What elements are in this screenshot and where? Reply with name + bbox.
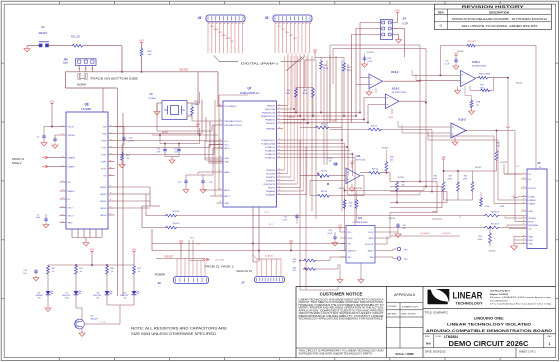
svg-text:SIZE 0603 UNLESS OTHERWISE SPE: SIZE 0603 UNLESS OTHERWISE SPECIFIED <box>131 332 217 336</box>
svg-text:C34: C34 <box>368 58 371 60</box>
U8 pin DTR# <box>108 154 115 156</box>
U7 pin PB2(SS/OC1B) <box>277 112 284 114</box>
svg-text:MUX: MUX <box>289 117 294 119</box>
svg-text:PD7: PD7 <box>277 26 281 28</box>
svg-text:R41: R41 <box>349 203 352 205</box>
wire PB rows to buffers <box>283 112 360 114</box>
wire sda scl runs <box>345 189 424 191</box>
svg-text:C13: C13 <box>23 270 26 272</box>
svg-text:L_TX: L_TX <box>101 322 106 324</box>
svg-text:PC4(ADC4): PC4(ADC4) <box>265 153 275 156</box>
svg-text:J4: J4 <box>403 17 407 21</box>
svg-text:CBUS3: CBUS3 <box>100 208 108 210</box>
U7 pin PB6(XTAL1/TOSC1) <box>217 120 224 122</box>
svg-text:+5V: +5V <box>132 247 137 251</box>
J1 pin MISO/SDA <box>521 224 527 226</box>
svg-text:PD1(TXD): PD1(TXD) <box>266 173 275 175</box>
U7 pin GND <box>217 202 224 204</box>
U8 pin TXD <box>108 126 115 128</box>
svg-text:CUSTOMER NOTICE: CUSTOMER NOTICE <box>320 291 363 296</box>
svg-text:R13: R13 <box>79 268 82 270</box>
svg-text:1630 McCarthy Blvd.: 1630 McCarthy Blvd. <box>490 290 510 293</box>
svg-text:R22: R22 <box>137 268 140 270</box>
svg-text:5k: 5k <box>127 158 129 160</box>
ground at U13-2 <box>452 142 458 145</box>
svg-text:Fax: (408)434-0507: Fax: (408)434-0507 <box>490 300 509 302</box>
U8 pin RXD <box>108 133 115 135</box>
U8 pin DCD# <box>108 168 115 170</box>
wire J3 bundle <box>176 259 178 277</box>
svg-text:VCCIO: VCCIO <box>501 162 508 164</box>
wire nested loops <box>390 182 437 213</box>
wire U4 to J1 <box>381 237 390 239</box>
svg-text:R38: R38 <box>477 102 480 104</box>
svg-text:GND: GND <box>529 243 534 245</box>
U7 pin PC2(ADC2) <box>277 146 284 148</box>
svg-text:PC3(ADC3): PC3(ADC3) <box>265 149 275 152</box>
U8 pin TEST <box>60 222 67 224</box>
J1 pin GND <box>521 239 527 241</box>
wire crystal <box>157 102 162 104</box>
svg-text:+5V: +5V <box>50 99 55 103</box>
svg-text:VCCIO: VCCIO <box>367 52 374 54</box>
svg-text:THIS CIRCUIT IS PROPRIETARY TO: THIS CIRCUIT IS PROPRIETARY TO LINEAR TE… <box>299 350 384 353</box>
wire led rail <box>48 264 134 266</box>
svg-text:LINDUINO ONE:: LINDUINO ONE: <box>474 316 504 321</box>
ground at S1 <box>24 49 30 52</box>
U4 pin ATO <box>340 256 346 258</box>
svg-text:LTC4360CMS8: LTC4360CMS8 <box>353 222 369 224</box>
J1 pin 5V <box>521 173 527 175</box>
svg-text:1 MEG: 1 MEG <box>193 104 200 106</box>
svg-text:CBUS0: CBUS0 <box>100 187 108 189</box>
wire bus verticals <box>341 60 343 212</box>
ground at R31 <box>119 165 125 168</box>
J5 pin wires <box>274 22 276 53</box>
svg-text:GND: GND <box>529 236 534 238</box>
U8 pin USBDP <box>60 166 67 168</box>
svg-text:C30: C30 <box>328 230 331 232</box>
svg-text:CBUS1: CBUS1 <box>100 194 108 196</box>
svg-text:C15: C15 <box>445 61 448 63</box>
svg-text:SCK/SCL: SCK/SCL <box>529 218 537 220</box>
ground at C26 <box>200 190 206 193</box>
ground at C22 <box>183 190 189 193</box>
svg-text:VERIFY PROPER AND RELIABLE OPE: VERIFY PROPER AND RELIABLE OPERATION IN … <box>299 307 385 310</box>
svg-text:3V3OUT: 3V3OUT <box>68 135 77 137</box>
long digital wires <box>177 215 484 217</box>
svg-text:R51 49.9: R51 49.9 <box>491 224 500 226</box>
ground at C19 <box>395 234 401 237</box>
svg-text:PD3(INT1): PD3(INT1) <box>266 180 275 182</box>
svg-text:APPROVALS: APPROVALS <box>394 293 416 297</box>
svg-text:VCCIO: VCCIO <box>382 148 389 150</box>
svg-text:R24 1k: R24 1k <box>173 223 181 225</box>
svg-text:CIRCUIT THAT MEETS CUSTOMER-SU: CIRCUIT THAT MEETS CUSTOMER-SUPPLIED SPE… <box>299 301 384 304</box>
U8 pin RI# <box>108 175 115 177</box>
U4 pin VOUT <box>375 231 381 233</box>
svg-text:NOTE: ALL RESISTORS AND CAPACI: NOTE: ALL RESISTORS AND CAPACITORS ARE <box>131 327 227 331</box>
svg-text:MUX: MUX <box>389 117 394 119</box>
U7 pin PB5(SCK) <box>277 122 284 124</box>
svg-text:DATE: 05/29/2015: DATE: 05/29/2015 <box>425 351 446 354</box>
svg-text:VCCIO: VCCIO <box>356 188 363 190</box>
U4 pin FAULT <box>375 250 381 252</box>
J1 pin USBDP <box>521 203 527 205</box>
U7 pin PB0(ICP) <box>277 105 284 107</box>
svg-text:MUX: MUX <box>332 121 337 123</box>
svg-text:PB7(XTAL2/TOSC2): PB7(XTAL2/TOSC2) <box>225 124 243 127</box>
svg-text:CTS#: CTS# <box>101 147 107 149</box>
svg-text:+5V: +5V <box>313 48 318 52</box>
svg-text:J1: J1 <box>537 161 541 165</box>
U7 pin PD6(AIN0) <box>277 190 284 192</box>
svg-text:C15: C15 <box>157 149 160 151</box>
svg-text:0.1uF: 0.1uF <box>328 233 334 235</box>
svg-text:GND: GND <box>225 161 230 163</box>
U8 pin VCCIO <box>60 126 67 128</box>
svg-text:GND: GND <box>225 203 230 205</box>
resistor R31 5k <box>121 152 124 161</box>
svg-text:PRODUCTION RELEASE DC2026B -: PRODUCTION RELEASE DC2026B - W.THOREN 4/… <box>452 18 548 21</box>
ground at J1 <box>514 236 521 238</box>
svg-text:PD7(AIN1): PD7(AIN1) <box>266 193 276 196</box>
svg-text:VCCIO: VCCIO <box>475 167 482 169</box>
svg-text:PB2(SS/OC1B): PB2(SS/OC1B) <box>262 112 275 114</box>
U8 pin CBUS1 <box>108 193 115 195</box>
svg-text:GATE: GATE <box>368 237 374 240</box>
svg-text:TITLE: SCHEMATIC: TITLE: SCHEMATIC <box>425 310 449 314</box>
U4 pin GATE <box>375 237 381 239</box>
svg-text:R37: R37 <box>481 85 484 87</box>
U4 pin TMR <box>375 256 381 258</box>
svg-text:4.99k: 4.99k <box>500 206 505 208</box>
U7 pin GND <box>217 161 224 163</box>
svg-text:Y1: Y1 <box>149 92 153 96</box>
svg-text:C17: C17 <box>174 149 177 151</box>
wire bus U8 to U7 <box>115 126 199 128</box>
svg-text:P4_5: P4_5 <box>265 212 269 214</box>
svg-text:RESET#: RESET# <box>68 191 77 193</box>
wire cbus leds <box>115 186 151 188</box>
U7 pin VCC <box>217 144 224 146</box>
U7 pin PD1(TXD) <box>277 173 284 175</box>
svg-text:VCCIO: VCCIO <box>516 82 523 84</box>
ground at U4 bottom <box>337 280 343 283</box>
svg-text:VOUT: VOUT <box>368 232 374 234</box>
svg-text:A0 A2 A4: A0 A2 A4 <box>265 255 272 258</box>
wire norm route <box>65 72 67 88</box>
U7 pin PC5(ADC5) <box>277 157 284 159</box>
svg-text:R47: R47 <box>449 176 452 178</box>
svg-text:R10: R10 <box>287 90 290 92</box>
U7 pin GND <box>217 157 224 159</box>
svg-text:0.1uF: 0.1uF <box>328 158 334 160</box>
U7 pin PD3(INT1) <box>277 180 284 182</box>
svg-text:R50 49.9: R50 49.9 <box>491 212 500 214</box>
svg-text:APP ENG.: APP ENG. <box>388 312 398 315</box>
svg-text:VCCIO: VCCIO <box>339 188 346 190</box>
J1 pin CS <box>521 228 527 230</box>
svg-text:PD5(T1): PD5(T1) <box>268 187 276 189</box>
svg-text:RTS#: RTS# <box>101 140 107 142</box>
svg-text:49.9k: 49.9k <box>303 93 307 95</box>
svg-text:0.1uF: 0.1uF <box>368 61 374 63</box>
svg-text:PB3(MOSI/OC2): PB3(MOSI/OC2) <box>261 116 275 118</box>
svg-text:R39 OPT: R39 OPT <box>468 41 477 43</box>
svg-text:DESCRIPTION: DESCRIPTION <box>489 11 509 15</box>
svg-text:+5V: +5V <box>350 159 355 163</box>
ground at C15 <box>453 66 459 69</box>
U7 pin AREF <box>217 171 224 173</box>
svg-text:PC6 (RESET): PC6 (RESET) <box>225 106 237 108</box>
svg-text:PB0(ICP): PB0(ICP) <box>267 105 275 107</box>
svg-text:HOWEVER, IT REMAINS THE CUSTOM: HOWEVER, IT REMAINS THE CUSTOMER'S RESPO… <box>299 304 384 307</box>
capacitor C6 at U8 VCC <box>43 134 45 136</box>
U7 pin PB6/XTAL <box>277 128 284 130</box>
svg-text:EXTVCC: EXTVCC <box>529 188 537 190</box>
svg-text:SCL/OUT: SCL/OUT <box>365 244 374 246</box>
svg-text:J3: J3 <box>157 281 161 285</box>
svg-text:SHEET 1 OF 2: SHEET 1 OF 2 <box>519 351 536 354</box>
svg-text:U7: U7 <box>247 87 251 91</box>
svg-text:ANALOG IN: ANALOG IN <box>236 269 251 273</box>
jumper trace NORM link <box>79 74 86 79</box>
svg-text:USBDM: USBDM <box>529 200 536 202</box>
wire verticals left of U12 <box>329 55 331 123</box>
svg-text:PB5(SCK): PB5(SCK) <box>266 123 275 125</box>
wire U12 outputs down <box>419 81 421 182</box>
svg-text:PB6/XTAL: PB6/XTAL <box>266 127 275 130</box>
U7 pin ADC6 <box>217 189 224 191</box>
svg-text:10k: 10k <box>349 205 352 207</box>
svg-text:DCD#: DCD# <box>101 168 107 170</box>
svg-text:ADC7: ADC7 <box>225 195 230 198</box>
svg-text:VCCIO: VCCIO <box>68 126 75 128</box>
svg-text:U8: U8 <box>84 103 88 107</box>
svg-text:R20: R20 <box>110 268 113 270</box>
svg-text:SCLK: SCLK <box>348 238 354 240</box>
wire verticals left of U7 <box>214 100 216 196</box>
svg-text:APPLICATION. COMPONENT SUBSTI: APPLICATION. COMPONENT SUBSTITUTION AND … <box>299 309 384 312</box>
svg-text:R44 1k: R44 1k <box>321 171 327 173</box>
svg-text:ATMEGA328P-AU: ATMEGA328P-AU <box>240 92 260 95</box>
svg-text:+5V: +5V <box>395 8 400 12</box>
test point TP4 <box>397 257 400 260</box>
svg-text:1k: 1k <box>111 271 113 273</box>
svg-text:CBUS4: CBUS4 <box>100 215 108 217</box>
svg-text:AREF: AREF <box>225 171 231 174</box>
svg-text:PERFORMANCE OR RELIABILITY. C: PERFORMANCE OR RELIABILITY. CONTACT LINE… <box>299 315 384 318</box>
U8 pin RTS# <box>108 140 115 142</box>
svg-text:CIRCUIT BOARD LAYOUT MAY SIGNI: CIRCUIT BOARD LAYOUT MAY SIGNIFICANTLY A… <box>299 312 385 315</box>
svg-text:ATO: ATO <box>348 256 352 259</box>
U8 pin USBDM <box>60 157 67 159</box>
svg-text:4.99k: 4.99k <box>478 239 482 241</box>
svg-text:R43 1k: R43 1k <box>321 191 327 193</box>
svg-text:TRACE ON BOTTOM SIDE: TRACE ON BOTTOM SIDE <box>90 77 138 81</box>
svg-text:USBDP: USBDP <box>68 166 76 168</box>
svg-text:1k: 1k <box>80 271 82 273</box>
svg-text:S1: S1 <box>41 25 45 29</box>
J1 pin SCK/SCL <box>521 217 527 219</box>
U7 pin PD7(AIN1) <box>277 194 284 196</box>
svg-text:Milpitas, CA 95035: Milpitas, CA 95035 <box>490 293 509 296</box>
U7 pin AVCC <box>217 147 224 149</box>
title block frame <box>296 286 556 288</box>
svg-text:VCC: VCC <box>225 141 230 143</box>
svg-text:49.9k: 49.9k <box>347 70 351 72</box>
svg-text:REV: REV <box>438 11 444 15</box>
svg-text:FROM U1: FROM U1 <box>12 157 25 161</box>
U7 pin PC4(ADC4) <box>277 153 284 155</box>
ground at C6 <box>41 143 47 146</box>
svg-text:PB4(MISO): PB4(MISO) <box>265 119 275 121</box>
U7 pin VCC <box>217 140 224 142</box>
wire gnd run from J7 area <box>300 289 338 291</box>
svg-text:R48: R48 <box>464 176 467 178</box>
U7 pin PB7(XTAL2/TOSC2) <box>217 124 224 126</box>
svg-text:VCCIO: VCCIO <box>457 51 464 53</box>
svg-text:SKU UPDATE TO DC2026C: ADDED: SKU UPDATE TO DC2026C: ADDED R52-R57 <box>462 25 539 28</box>
svg-text:C20: C20 <box>284 217 287 219</box>
svg-text:TMR: TMR <box>369 257 374 259</box>
J1 pin EXTVCC <box>521 187 527 189</box>
ground at J4 <box>396 40 402 43</box>
svg-text:PB1(OC1A): PB1(OC1A) <box>265 108 275 111</box>
svg-text:D5V0A: D5V0A <box>529 195 536 198</box>
ground at R38 <box>469 111 475 114</box>
svg-text:16 MHz: 16 MHz <box>148 98 156 100</box>
U8 pin OSCI <box>60 207 67 209</box>
ground at U11 <box>349 188 355 191</box>
svg-text:VCC: VCC <box>348 232 353 234</box>
J6 pin wires <box>207 22 209 53</box>
svg-text:PB6(XTAL1/TOSC1): PB6(XTAL1/TOSC1) <box>225 120 243 123</box>
svg-text:PD4: PD4 <box>289 35 293 37</box>
ground at U13-1 <box>455 91 461 94</box>
svg-text:1k: 1k <box>52 271 54 273</box>
U7 pin ADC7 <box>217 195 224 197</box>
svg-text:ISOGND: ISOGND <box>421 233 430 235</box>
svg-text:LINEAR TECHNOLOGY ISOLATED: LINEAR TECHNOLOGY ISOLATED <box>447 322 531 327</box>
ground under U8 <box>83 243 89 246</box>
svg-text:IC NO.: IC NO. <box>436 336 443 338</box>
U4 pin VCC <box>340 231 346 233</box>
svg-text:R12: R12 <box>51 268 54 270</box>
svg-text:VCCIO: VCCIO <box>398 177 405 179</box>
svg-text:4.99k: 4.99k <box>485 206 490 208</box>
svg-text:W.SHANER 7/02/13: W.SHANER 7/02/13 <box>402 305 419 308</box>
svg-text:PD0(RXD): PD0(RXD) <box>266 170 275 172</box>
svg-text:SIZE: SIZE <box>425 336 430 338</box>
svg-text:49.9k: 49.9k <box>286 93 290 95</box>
wire <box>49 45 72 47</box>
svg-text:MOSI: MOSI <box>226 38 231 40</box>
svg-text:U12-2: U12-2 <box>391 70 399 74</box>
test point TP3 <box>397 247 400 250</box>
capacitor C24 at U8 right <box>123 136 125 138</box>
svg-text:1k: 1k <box>477 104 479 106</box>
svg-text:TXD: TXD <box>103 126 108 128</box>
U8 pin DSR# <box>108 161 115 163</box>
svg-text:ISOVCC: ISOVCC <box>443 233 452 235</box>
U4 pin SDA/OUT <box>340 250 346 252</box>
svg-text:PD4(XCK/T0): PD4(XCK/T0) <box>263 184 275 186</box>
U8 pin CBUS0 <box>108 186 115 188</box>
wire bundle U7 PC to analog <box>283 139 342 141</box>
svg-text:DSR#: DSR# <box>101 161 107 163</box>
svg-text:0.1uF: 0.1uF <box>445 64 451 66</box>
capacitor C8 OPT <box>333 163 335 165</box>
svg-text:AREF: AREF <box>162 132 169 135</box>
U8 pin NC <box>60 198 67 200</box>
bus ripper <box>286 57 302 71</box>
svg-text:LTM2884: LTM2884 <box>444 335 458 339</box>
svg-text:VCCIO: VCCIO <box>389 218 396 220</box>
svg-text:NC7WZ125K8X: NC7WZ125K8X <box>392 92 407 94</box>
svg-text:ARDUINO-COMPATIBLE DEMONSTRATI: ARDUINO-COMPATIBLE DEMONSTRATION BOARD <box>426 328 552 333</box>
wire bundle U7 PD to headers <box>283 169 285 171</box>
U7 pin PD2(INT0) <box>277 176 284 178</box>
svg-text:4.99k: 4.99k <box>463 179 467 181</box>
ground at D2 <box>45 308 51 311</box>
svg-text:J7: J7 <box>241 281 245 285</box>
svg-text:+5V: +5V <box>139 38 144 42</box>
svg-text:OSCO: OSCO <box>68 215 74 217</box>
J1 pin 3V <box>521 178 527 180</box>
svg-text:49.9k: 49.9k <box>324 68 328 70</box>
U8 pin CTS# <box>108 147 115 149</box>
wire feedback loops <box>330 45 420 123</box>
svg-text:PD2(INT0): PD2(INT0) <box>266 177 275 179</box>
svg-text:LINEAR: LINEAR <box>453 291 484 301</box>
U4 pin SCLK <box>340 237 346 239</box>
U8 pin OSCO <box>60 215 67 217</box>
svg-text:PD5: PD5 <box>285 32 289 34</box>
U7 pin PC3(ADC3) <box>277 150 284 152</box>
svg-text:PD6: PD6 <box>281 29 285 31</box>
svg-text:LT1797CS6: LT1797CS6 <box>355 160 366 162</box>
svg-text:DIGITAL (PWM~): DIGITAL (PWM~) <box>241 61 278 65</box>
ground at U12-2 <box>366 92 372 95</box>
U7 pin PB3(MOSI/OC2) <box>277 115 284 117</box>
svg-text:VCC: VCC <box>225 144 230 146</box>
U7 pin PB4(MISO) <box>277 119 284 121</box>
svg-text:GND: GND <box>529 211 534 213</box>
wire xtal to crystal <box>192 120 217 122</box>
svg-text:LINEAR TECHNOLOGY HAS MADE A B: LINEAR TECHNOLOGY HAS MADE A BEST EFFORT… <box>299 298 385 301</box>
svg-text:+5V_USB: +5V_USB <box>215 259 225 261</box>
U8 pin CBUS2 <box>108 200 115 202</box>
svg-text:RESET: RESET <box>39 31 48 35</box>
junction dots U7 bus <box>293 108 295 110</box>
ground at C15 C17 <box>164 153 166 157</box>
svg-text:REV: REV <box>547 336 552 338</box>
svg-text:USBDM: USBDM <box>68 157 76 159</box>
svg-text:GND: GND <box>210 26 215 28</box>
svg-text:TECHNOLOGY: TECHNOLOGY <box>456 300 483 305</box>
svg-text:C8: C8 <box>329 161 331 163</box>
svg-text:U4: U4 <box>358 216 362 220</box>
revision history table <box>434 4 551 29</box>
svg-text:+5V: +5V <box>90 247 95 251</box>
svg-text:POWER: POWER <box>155 272 166 276</box>
svg-text:C26: C26 <box>209 182 212 184</box>
svg-text:FROM J2, PAGE 2: FROM J2, PAGE 2 <box>205 265 235 269</box>
U7 pin PC0(ADC0)SCL <box>277 139 284 141</box>
svg-text:R34: R34 <box>293 267 296 269</box>
